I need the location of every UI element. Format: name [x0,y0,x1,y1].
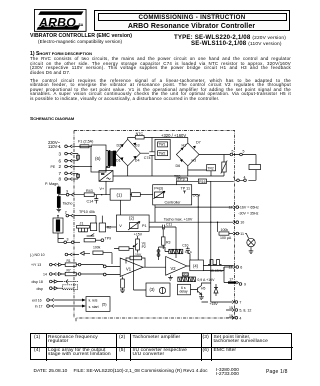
svg-text:2: 2 [65,211,67,215]
svg-text:17: 17 [229,278,233,282]
svg-text:15: 15 [229,306,233,310]
svg-text:D6: D6 [176,164,181,168]
svg-text:R16: R16 [199,180,205,184]
svg-text:s. start: s. start [89,305,99,309]
svg-text:(2): (2) [129,215,135,220]
svg-text:TP9: TP9 [105,236,111,240]
svg-text:V1: V1 [126,267,132,272]
svg-text:6: 6 [59,158,62,163]
svg-text:R1: R1 [67,259,71,263]
svg-text:2: 2 [59,164,62,169]
svg-text:5: 5 [232,150,234,154]
svg-text:(4): (4) [193,263,199,268]
svg-text:TR2: TR2 [208,166,214,170]
svg-text:P4(3): P4(3) [154,187,163,191]
svg-text:(5): (5) [102,301,107,306]
svg-text:D1: D1 [116,159,121,163]
svg-text:PE: PE [51,165,56,169]
svg-text:+320 / +160V: +320 / +160V [161,133,186,138]
svg-text:H5: H5 [201,287,205,291]
svg-text:P1: P1 [142,224,147,228]
svg-text:V2: V2 [171,266,177,271]
svg-text:+15V: +15V [210,302,219,306]
svg-text:P. Magn.: P. Magn. [45,182,59,186]
svg-text:6: 6 [240,266,242,270]
svg-text:OC4: OC4 [193,193,201,197]
svg-text:V: V [119,223,122,228]
svg-text:C10: C10 [182,243,188,247]
svg-text:1: 1 [59,144,62,149]
svg-text:TW1: TW1 [158,143,165,147]
svg-text:V+: V+ [100,187,105,191]
svg-text:4: 4 [233,175,235,179]
svg-text:100 µA: 100 µA [220,236,232,240]
svg-text:TP 9: TP 9 [178,178,185,182]
svg-text:+/Y 13: +/Y 13 [31,263,41,267]
svg-text:(1): (1) [117,193,123,198]
svg-text:+16V = 65Hz: +16V = 65Hz [238,205,259,209]
svg-text:5, 8, 12: 5, 8, 12 [239,309,251,313]
svg-text:disp 18: disp 18 [32,280,43,284]
svg-text:14: 14 [43,273,47,277]
svg-text:8: 8 [59,177,62,182]
svg-text:(6): (6) [95,156,101,161]
svg-text:(-) NO 10: (-) NO 10 [30,253,45,257]
svg-text:12: 12 [229,266,233,270]
svg-text:D3: D3 [135,144,140,148]
svg-text:TP 11: TP 11 [181,187,191,191]
svg-text:ARBO: ARBO [38,15,76,29]
svg-text:Controller: Controller [165,200,182,204]
svg-text:R43: R43 [86,189,93,193]
svg-text:10: 10 [240,221,244,225]
svg-text:R3: R3 [166,240,171,244]
svg-text:NTC: NTC [136,132,144,136]
svg-text:D2: D2 [117,144,122,148]
svg-text:(3): (3) [150,287,156,292]
svg-text:0,9 A +10V: 0,9 A +10V [197,278,215,282]
svg-text:D7: D7 [196,141,201,145]
svg-text:H1: H1 [182,143,187,147]
svg-text:F1 (2,5A): F1 (2,5A) [78,140,93,144]
svg-text:D4: D4 [135,159,140,163]
svg-text:TP10 40k: TP10 40k [79,210,95,214]
svg-text:7: 7 [239,301,241,305]
svg-text:301: 301 [183,273,189,277]
svg-text:delay: delay [180,290,188,294]
svg-text:9: 9 [66,190,68,194]
svg-text:12: 12 [229,206,233,210]
svg-text:100k: 100k [93,246,101,250]
svg-text:7: 7 [59,171,62,176]
svg-text:J1: J1 [80,221,84,225]
svg-text:P2: P2 [142,245,146,249]
svg-text:4: 4 [239,316,241,320]
svg-text:Tacho: Tacho [63,202,73,206]
svg-text:disp: disp [37,287,43,291]
svg-text:TW2: TW2 [158,152,165,156]
svg-text:C74: C74 [144,156,151,160]
svg-text:k. rels: k. rels [89,298,98,302]
svg-text:5: 5 [243,150,245,154]
svg-text:16: 16 [229,314,233,318]
svg-text:C11: C11 [166,223,172,227]
svg-text:R7: R7 [67,268,71,272]
svg-text:11: 11 [240,232,244,236]
svg-text:C14: C14 [87,200,94,204]
svg-text:4: 4 [244,175,246,179]
svg-text:3: 3 [67,238,69,242]
svg-text:Tacho max. +10V: Tacho max. +10V [164,217,193,221]
svg-text:SA: SA [79,23,84,27]
svg-text:in 17: in 17 [35,305,43,309]
svg-text:-30V = 35Hz: -30V = 35Hz [238,211,258,215]
svg-text:R2: R2 [107,226,112,230]
svg-text:100k: 100k [221,228,229,232]
svg-text:H3: H3 [192,158,197,162]
svg-text:ext 16: ext 16 [32,299,42,303]
svg-text:+15V: +15V [134,232,143,236]
svg-text:9: 9 [244,283,246,287]
svg-text:3: 3 [59,151,62,156]
